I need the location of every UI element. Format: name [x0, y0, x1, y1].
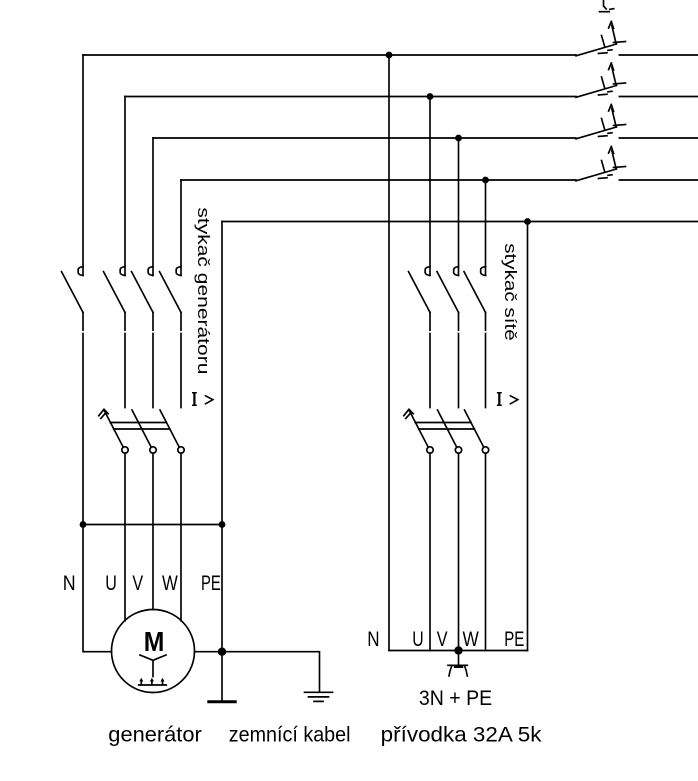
overload F2 heater bar lower: [419, 428, 475, 430]
wire line1 L1 left segment: [83, 54, 576, 56]
svg-text:V: V: [132, 572, 143, 595]
wire right W column top: [485, 180, 487, 275]
overload F1 pole 1 contact circle: [122, 447, 128, 453]
wire motor right to earth: [195, 652, 320, 692]
switch Q1 pole on line3: [576, 105, 626, 139]
contactor K1 pole 1 fixed contact hook: [78, 267, 83, 276]
overload F2 heater bar upper: [415, 422, 471, 424]
socket X1 bar: [448, 664, 467, 666]
svg-text:U: U: [105, 572, 117, 595]
motor M1 circle: [112, 610, 195, 693]
contactor K2 pole U blade: [409, 272, 431, 313]
svg-text:generátor: generátor: [108, 723, 202, 747]
wire F2 V to socket bus: [458, 453, 460, 650]
svg-text:PE: PE: [504, 628, 524, 651]
wire K1 pole1 to node N left: [82, 312, 84, 524]
motor M1 winding arrow heads: [139, 678, 164, 682]
socket X1 stem: [458, 651, 460, 666]
node junction dot line1/N right: [386, 52, 393, 59]
earth symbol right bar1: [305, 691, 333, 693]
wire K1 pole3 to overload F1: [152, 312, 154, 407]
overload F1 pole 3 blade: [160, 410, 179, 447]
node junction dot left link N: [80, 521, 87, 528]
node junction dot line2/U right: [427, 93, 434, 100]
wire F1 W to motor: [180, 453, 182, 621]
socket X1 right leg: [465, 667, 468, 677]
wire riser L1 to generator contactor pole 1: [82, 55, 84, 275]
overload F2 pole W blade: [465, 410, 484, 447]
svg-text:W: W: [162, 572, 178, 595]
wire K2 pole U to overload F2: [429, 312, 431, 407]
motor M1 star point wye: [140, 655, 166, 677]
svg-text:N: N: [367, 628, 379, 651]
switch Q1 pole on line2: [576, 63, 626, 97]
socket X1 center tick: [455, 665, 461, 668]
node junction dot line4/W right: [482, 177, 489, 184]
overload F1 pole 2 blade: [132, 410, 151, 447]
overload F2 pole W contact circle: [482, 447, 488, 453]
wire line3 L3 left segment: [153, 137, 576, 139]
wire F1 U to motor: [124, 453, 126, 621]
overload F1 trip arrow: [99, 409, 108, 418]
contactor K1 pole 1 blade: [62, 272, 84, 313]
wire riser PE left I> column top: [221, 222, 223, 525]
wire F1 V to motor: [152, 453, 154, 609]
overload F2 pole U contact circle: [427, 447, 433, 453]
contactor K2 pole W fixed contact hook: [481, 267, 486, 276]
contactor K1 pole 2 blade: [104, 272, 126, 313]
wire right V column top: [458, 138, 460, 275]
svg-text:přívodka 32A 5k: přívodka 32A 5k: [381, 723, 542, 747]
overload F1 heater bar lower: [114, 428, 170, 430]
contactor K2 pole U fixed contact hook: [425, 267, 430, 276]
wire K1 pole4 to overload F1: [180, 312, 182, 407]
switch Q1 pole partial at top edge: [600, 0, 614, 12]
wire line1 L1 right segment: [619, 54, 698, 56]
wire riser N to generator contactor pole 4: [180, 180, 182, 275]
wire N column to motor left: [83, 525, 112, 652]
svg-text:U: U: [412, 628, 423, 651]
wire K2 pole W to overload F2: [485, 312, 487, 407]
wire riser L2 to generator contactor pole 2: [124, 97, 126, 276]
socket X1 left leg: [449, 667, 452, 677]
overload F1 heater bar upper: [110, 422, 166, 424]
svg-text:stykač sítě: stykač sítě: [501, 243, 520, 341]
motor M1 winding terminal arrows: [141, 681, 162, 685]
wire line2 L2 right segment: [619, 96, 698, 98]
wire right I> column: [527, 222, 529, 651]
wire line5 PE bus: [222, 221, 698, 223]
contactor K2 pole W blade: [464, 272, 486, 313]
wire socket bus bottom: [389, 650, 528, 652]
label I> right: [497, 393, 518, 405]
node junction dot motor PE: [218, 648, 226, 656]
earth symbol right bar3: [314, 700, 323, 702]
switch Q1 pole on line1: [576, 22, 626, 56]
contactor K1 pole 2 fixed contact hook: [120, 267, 125, 276]
svg-text:N: N: [63, 572, 76, 595]
wire line4 N bus right segment: [619, 179, 698, 181]
wire line2 L2 left segment: [125, 96, 576, 98]
svg-text:W: W: [463, 628, 479, 651]
contactor K1 pole 3 fixed contact hook: [148, 267, 153, 276]
overload F2 pole V blade: [438, 410, 457, 447]
contactor K1 pole 4 fixed contact hook: [176, 267, 181, 276]
svg-text:V: V: [437, 628, 448, 651]
wire K2 pole V to overload F2: [458, 312, 460, 407]
overload F2 trip arrow: [404, 409, 413, 418]
motor M1 winding terminals bar: [139, 684, 166, 686]
node junction dot socket: [454, 646, 462, 654]
contactor K1 pole 3 blade: [132, 272, 154, 313]
wire right U column top: [429, 97, 431, 276]
wire line4 N bus left segment: [181, 179, 576, 181]
node junction dot left link PE: [219, 521, 226, 528]
wire riser L3 to generator contactor pole 3: [152, 138, 154, 275]
svg-text:zemnící kabel: zemnící kabel: [229, 723, 351, 747]
overload F2 pole V contact circle: [455, 447, 461, 453]
overload F1 pole 1 blade: [104, 410, 123, 447]
wire right N column: [388, 55, 390, 651]
wire line3 L3 right segment: [619, 137, 698, 139]
earth symbol right bar2: [309, 696, 329, 698]
contactor K2 pole V fixed contact hook: [454, 267, 459, 276]
wire F2 W to socket bus: [485, 453, 487, 650]
svg-text:M: M: [144, 626, 165, 657]
svg-text:stykač generátoru: stykač generátoru: [194, 207, 213, 374]
wire F2 U to socket bus: [429, 453, 431, 650]
earth PE bar left: [209, 700, 235, 703]
wire PE column down: [221, 525, 223, 702]
wire left link N-PE: [83, 524, 222, 526]
overload F2 pole U blade: [409, 410, 428, 447]
overload F1 pole 2 contact circle: [150, 447, 156, 453]
node junction dot line3/V right: [455, 135, 462, 142]
wire K1 pole2 to overload F1: [124, 312, 126, 407]
contactor K1 pole 4 blade: [160, 272, 182, 313]
switch Q1 pole on line4: [576, 147, 626, 181]
contactor K2 pole V blade: [437, 272, 459, 313]
overload F1 pole 3 contact circle: [178, 447, 184, 453]
node junction dot line5/PE right: [524, 218, 531, 225]
svg-text:3N + PE: 3N + PE: [419, 687, 492, 710]
label I> left: [192, 393, 213, 405]
svg-text:PE: PE: [201, 572, 221, 595]
